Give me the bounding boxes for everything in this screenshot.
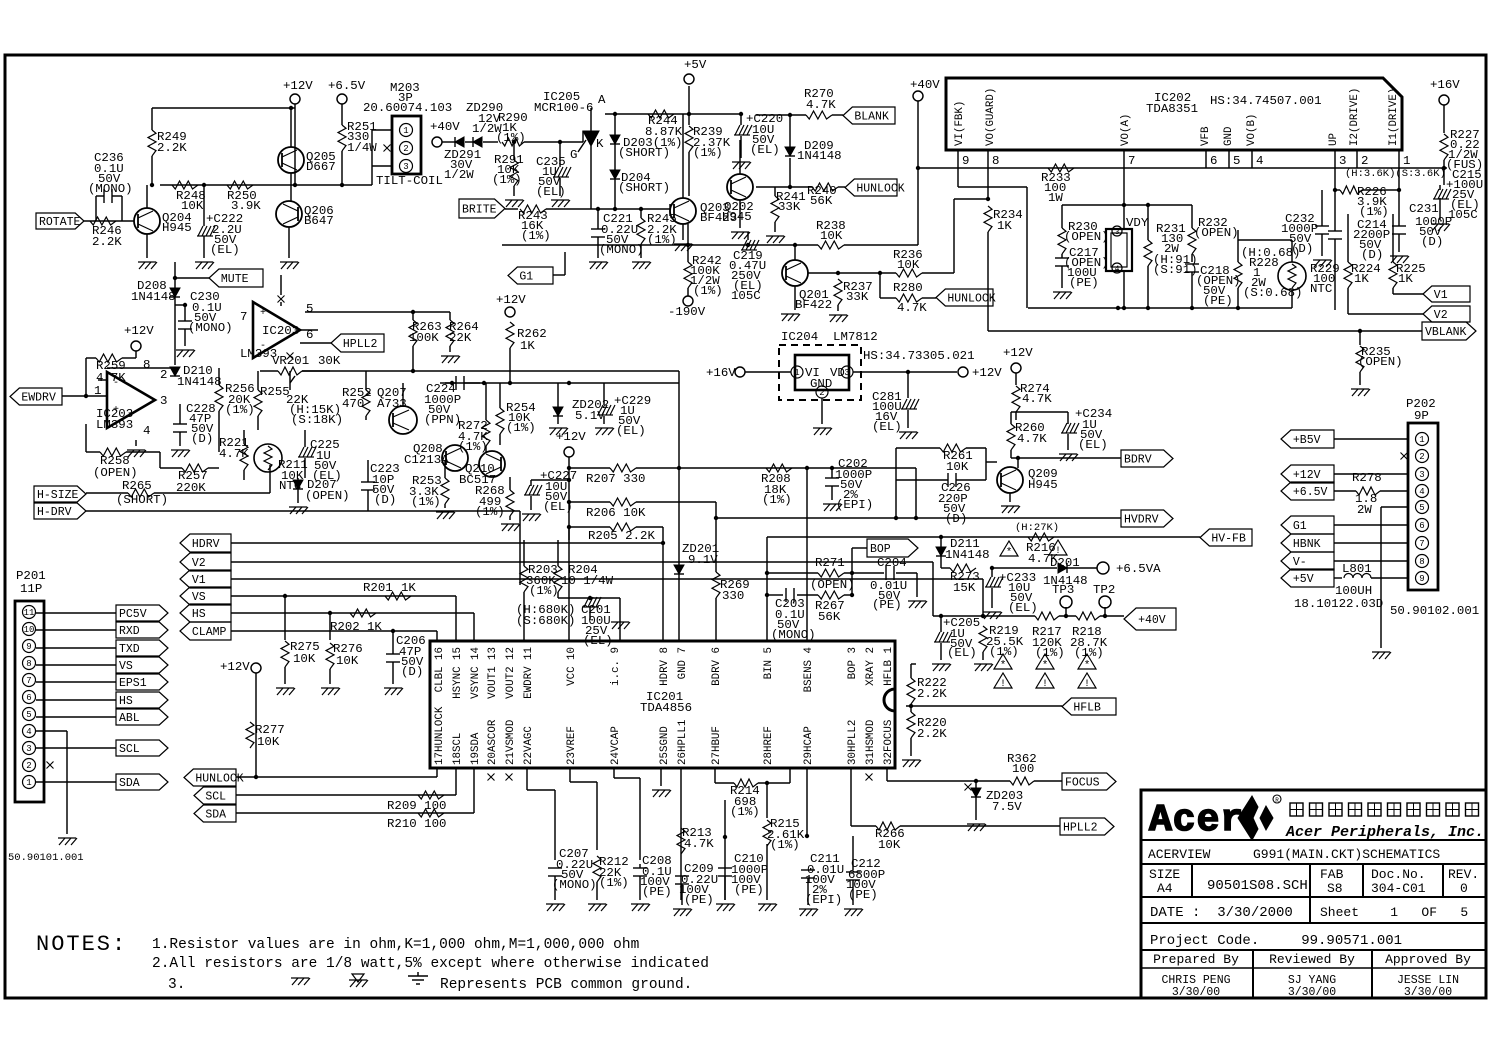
svg-text:I2(DRIVE): I2(DRIVE) [1349, 88, 1361, 146]
svg-text:27HBUF: 27HBUF [711, 726, 723, 765]
svg-text:TDA8351: TDA8351 [1146, 102, 1198, 116]
svg-text:(D): (D) [1421, 235, 1443, 249]
svg-text:HDRV: HDRV [192, 538, 220, 551]
svg-text:18.10122.03D: 18.10122.03D [1294, 597, 1383, 611]
svg-text:H945: H945 [1028, 478, 1058, 492]
svg-text:VO(A): VO(A) [1120, 114, 1132, 146]
svg-text:!: ! [1000, 679, 1006, 690]
svg-text:(1%): (1%) [225, 403, 255, 417]
svg-text:(H:27K): (H:27K) [1015, 522, 1059, 534]
svg-text:+16V: +16V [706, 366, 736, 380]
svg-text:Sheet 1 OF 5: Sheet 1 OF 5 [1320, 905, 1468, 920]
svg-text:105C: 105C [1448, 208, 1478, 222]
svg-text:(1%): (1%) [730, 805, 760, 819]
svg-text:ROTATE: ROTATE [39, 216, 81, 229]
svg-text:2: 2 [1419, 452, 1424, 462]
svg-text:10K: 10K [336, 654, 359, 668]
svg-text:P201: P201 [16, 569, 46, 583]
svg-text:(1%): (1%) [693, 284, 723, 298]
svg-text:UP: UP [1328, 133, 1340, 146]
svg-text:9: 9 [962, 154, 969, 168]
svg-text:4.7K: 4.7K [1022, 392, 1052, 406]
svg-text:1K: 1K [401, 581, 416, 595]
svg-text:G991(MAIN.CKT)SCHEMATICS: G991(MAIN.CKT)SCHEMATICS [1253, 847, 1440, 862]
svg-text:(PE): (PE) [734, 883, 764, 897]
svg-text:1K: 1K [1398, 272, 1413, 286]
svg-text:7: 7 [1419, 539, 1424, 549]
svg-text:(1%): (1%) [599, 876, 629, 890]
svg-text:20.60074.103: 20.60074.103 [363, 101, 452, 115]
svg-text:1/2W: 1/2W [444, 168, 474, 182]
svg-text:2W: 2W [1357, 503, 1372, 517]
svg-text:S8: S8 [1327, 881, 1343, 896]
svg-text:4: 4 [1256, 154, 1263, 168]
svg-text:1/4W: 1/4W [347, 141, 377, 155]
svg-text:19SDA: 19SDA [470, 732, 482, 765]
svg-text:+5V: +5V [684, 58, 707, 72]
svg-text:VO(B): VO(B) [1246, 114, 1258, 146]
svg-text:1K: 1K [520, 339, 535, 353]
svg-text:D667: D667 [306, 160, 336, 174]
svg-text:2: 2 [1361, 154, 1368, 168]
svg-text:10K: 10K [878, 838, 901, 852]
svg-text:6: 6 [1210, 154, 1217, 168]
svg-text:(OPEN): (OPEN) [1064, 230, 1109, 244]
svg-text:(MONO): (MONO) [88, 182, 133, 196]
svg-text:(D): (D) [374, 493, 396, 507]
svg-text:R271: R271 [815, 556, 845, 570]
svg-text:1: 1 [794, 368, 799, 378]
svg-text:31HSMOD: 31HSMOD [865, 720, 877, 765]
svg-text:HVDRV: HVDRV [1124, 514, 1159, 527]
svg-text:7: 7 [1128, 154, 1135, 168]
svg-text:2.2K: 2.2K [157, 141, 187, 155]
svg-text:18SCL: 18SCL [452, 733, 464, 765]
svg-text:1: 1 [1419, 435, 1424, 445]
svg-text:10K: 10K [181, 199, 204, 213]
svg-text:i.c. 9: i.c. 9 [610, 647, 622, 686]
svg-text:SDA: SDA [205, 809, 226, 822]
svg-text:2.2K: 2.2K [92, 235, 122, 249]
svg-text:10 1/4W: 10 1/4W [561, 574, 614, 588]
svg-text:+5V: +5V [1293, 573, 1314, 586]
svg-text:VS: VS [192, 591, 206, 604]
svg-text:SDA: SDA [119, 777, 140, 790]
svg-text:7.5V: 7.5V [992, 800, 1022, 814]
svg-text:6: 6 [1419, 521, 1424, 531]
svg-text:(OPEN): (OPEN) [305, 489, 350, 503]
svg-text:!: ! [1042, 679, 1048, 690]
svg-text:HDRV 8: HDRV 8 [659, 647, 671, 686]
svg-text:1K: 1K [997, 219, 1012, 233]
svg-text:K: K [596, 137, 604, 151]
svg-text:(D): (D) [401, 665, 423, 679]
svg-text:TP3: TP3 [1052, 583, 1074, 597]
svg-text:V1: V1 [1434, 289, 1448, 302]
svg-text:HS: HS [119, 695, 133, 708]
svg-text:56K: 56K [810, 194, 833, 208]
svg-text:4: 4 [26, 727, 31, 737]
svg-text:3: 3 [26, 744, 31, 754]
svg-text:VOUT2 12: VOUT2 12 [505, 647, 517, 699]
svg-text:-190V: -190V [668, 305, 706, 319]
svg-text:3: 3 [1419, 470, 1424, 480]
svg-text:!: ! [1084, 679, 1090, 690]
svg-text:1.Resistor values are in ohm,K: 1.Resistor values are in ohm,K=1,000 ohm… [152, 937, 639, 953]
svg-text:V1: V1 [192, 574, 206, 587]
svg-text:(EL): (EL) [583, 634, 613, 648]
svg-text:LM393: LM393 [96, 418, 133, 432]
svg-text:+: + [260, 308, 266, 319]
svg-text:*: * [1042, 660, 1049, 672]
svg-text:50.90101.001: 50.90101.001 [8, 852, 84, 864]
svg-text:V2: V2 [1434, 309, 1448, 322]
svg-text:(1%): (1%) [770, 838, 800, 852]
svg-text:+12V: +12V [556, 430, 586, 444]
svg-text:R201: R201 [363, 581, 393, 595]
svg-text:105C: 105C [731, 289, 761, 303]
svg-text:(1%): (1%) [762, 493, 792, 507]
svg-text:EWDRV: EWDRV [21, 392, 56, 405]
svg-text:Represents PCB common ground.: Represents PCB common ground. [440, 977, 692, 993]
svg-text:FAB: FAB [1320, 867, 1344, 882]
svg-text:3: 3 [1115, 228, 1120, 237]
svg-text:SCL: SCL [205, 791, 226, 804]
svg-text:0: 0 [1460, 881, 1468, 896]
svg-text:304-C01: 304-C01 [1371, 881, 1426, 896]
svg-text:6: 6 [26, 693, 31, 703]
svg-text:+: + [113, 405, 119, 416]
svg-text:2.2K: 2.2K [917, 687, 947, 701]
svg-text:ABL: ABL [119, 712, 140, 725]
svg-text:10K: 10K [897, 258, 920, 272]
svg-text:3.: 3. [168, 977, 185, 993]
svg-text:33K: 33K [778, 200, 801, 214]
svg-text:(PE): (PE) [642, 885, 672, 899]
svg-text:VDY: VDY [1126, 216, 1149, 230]
svg-text:BSENS 4: BSENS 4 [803, 647, 815, 692]
svg-text:3: 3 [844, 368, 849, 378]
svg-text:8: 8 [1419, 557, 1424, 567]
svg-text:CLBL 16: CLBL 16 [434, 647, 446, 692]
svg-text:(PE): (PE) [1069, 276, 1099, 290]
svg-text:V2: V2 [192, 557, 206, 570]
svg-text:15K: 15K [953, 581, 976, 595]
svg-text:Reviewed By: Reviewed By [1269, 952, 1355, 967]
svg-text:HS:34.73305.021: HS:34.73305.021 [863, 349, 975, 363]
svg-text:VS: VS [119, 660, 133, 673]
svg-text:R278: R278 [1352, 471, 1382, 485]
svg-text:ACERVIEW: ACERVIEW [1148, 847, 1211, 862]
svg-text:(1%): (1%) [1035, 646, 1065, 660]
svg-text:+B5V: +B5V [1293, 434, 1321, 447]
svg-text:R207 330: R207 330 [586, 472, 646, 486]
svg-text:TDA4856: TDA4856 [640, 701, 692, 715]
svg-text:5: 5 [1233, 154, 1240, 168]
svg-text:50.90102.001: 50.90102.001 [1390, 604, 1479, 618]
svg-text:1K: 1K [367, 620, 382, 634]
svg-text:HFLB 1: HFLB 1 [883, 647, 895, 686]
svg-text:(EL): (EL) [750, 143, 780, 157]
svg-text:(PE): (PE) [684, 893, 714, 907]
svg-text:HBNK: HBNK [1293, 538, 1321, 551]
svg-text:(S:680K): (S:680K) [516, 614, 576, 628]
svg-text:(OPEN): (OPEN) [810, 578, 855, 592]
svg-text:HPLL2: HPLL2 [343, 338, 378, 351]
svg-text:*: * [1000, 660, 1007, 672]
svg-text:(EL): (EL) [872, 420, 902, 434]
svg-text:9.1V: 9.1V [688, 553, 718, 567]
svg-text:2.2K: 2.2K [917, 727, 947, 741]
svg-text:1K: 1K [1354, 272, 1369, 286]
svg-text:HPLL2: HPLL2 [1063, 822, 1098, 835]
svg-text:8: 8 [26, 659, 31, 669]
svg-text:HS: HS [192, 608, 206, 621]
svg-text:FOCUS: FOCUS [1065, 777, 1100, 790]
svg-text:B647: B647 [304, 214, 334, 228]
svg-text:10K: 10K [293, 652, 316, 666]
svg-text:(PE): (PE) [872, 598, 902, 612]
svg-text:Approved By: Approved By [1385, 952, 1471, 967]
svg-text:8: 8 [143, 358, 150, 372]
svg-text:24VCAP: 24VCAP [610, 726, 622, 765]
svg-text:9: 9 [1419, 574, 1424, 584]
svg-text:(EPI): (EPI) [805, 893, 842, 907]
svg-text:R202: R202 [330, 620, 360, 634]
svg-text:C231: C231 [1409, 202, 1439, 216]
svg-text:(EL): (EL) [1078, 438, 1108, 452]
svg-text:HV-FB: HV-FB [1211, 533, 1246, 546]
svg-text:5: 5 [1419, 503, 1424, 513]
svg-text:30K: 30K [318, 354, 341, 368]
svg-text:23VREF: 23VREF [566, 726, 578, 765]
svg-text:+12V: +12V [283, 79, 313, 93]
svg-text:22VAGC: 22VAGC [523, 726, 535, 765]
svg-text:(H:3.6K)(S:3.6K): (H:3.6K)(S:3.6K) [1345, 168, 1446, 180]
svg-text:+6.5VA: +6.5VA [1116, 562, 1161, 576]
svg-text:GND: GND [810, 377, 832, 391]
svg-text:EPS1: EPS1 [119, 677, 147, 690]
svg-text:+12V: +12V [1003, 346, 1033, 360]
svg-text:4.7K: 4.7K [1017, 432, 1047, 446]
svg-text:(1%): (1%) [475, 505, 505, 519]
svg-text:R: R [1275, 797, 1279, 804]
svg-text:4.7K: 4.7K [897, 301, 927, 315]
svg-text:+12V: +12V [496, 293, 526, 307]
svg-text:BRITE: BRITE [462, 204, 497, 217]
svg-text:7: 7 [26, 676, 31, 686]
svg-text:R206 10K: R206 10K [586, 506, 646, 520]
svg-text:TP2: TP2 [1093, 583, 1115, 597]
svg-text:BDRV 6: BDRV 6 [711, 647, 723, 686]
svg-text:(MONO): (MONO) [552, 878, 597, 892]
svg-text:R209 100: R209 100 [387, 799, 447, 813]
svg-text:1: 1 [403, 126, 408, 136]
svg-text:A4: A4 [1157, 881, 1173, 896]
svg-text:+12V: +12V [1293, 469, 1321, 482]
svg-text:I1(DRIVE): I1(DRIVE) [1388, 88, 1400, 146]
svg-text:G1: G1 [519, 271, 533, 284]
svg-text:20ASCOR: 20ASCOR [487, 719, 499, 765]
svg-text:(D): (D) [945, 512, 967, 526]
svg-text:VI(FBK): VI(FBK) [954, 101, 966, 146]
svg-text:(1%): (1%) [411, 495, 441, 509]
svg-text:(SHORT): (SHORT) [618, 181, 670, 195]
svg-text:Project Code. 99.90571.001: Project Code. 99.90571.001 [1150, 933, 1402, 949]
svg-text:(PPN): (PPN) [424, 413, 461, 427]
svg-text:32FOCUS: 32FOCUS [883, 720, 895, 765]
svg-text:PC5V: PC5V [119, 608, 147, 621]
svg-text:1W: 1W [1048, 191, 1063, 205]
svg-text:2: 2 [160, 368, 167, 382]
svg-text:VCC 10: VCC 10 [566, 647, 578, 686]
svg-text:30HPLL2: 30HPLL2 [847, 720, 859, 765]
svg-text:(EL): (EL) [536, 185, 566, 199]
svg-text:4: 4 [1419, 487, 1424, 497]
svg-text:C204: C204 [877, 556, 907, 570]
svg-text:GND 7: GND 7 [677, 647, 689, 679]
svg-text:(EL): (EL) [210, 243, 240, 257]
svg-text:4: 4 [1115, 265, 1120, 274]
svg-text:90501S08.SCH: 90501S08.SCH [1207, 878, 1308, 894]
svg-text:1: 1 [1403, 154, 1410, 168]
svg-text:4.7K: 4.7K [806, 98, 836, 112]
svg-text:3: 3 [1339, 154, 1346, 168]
svg-text:56K: 56K [818, 610, 841, 624]
svg-text:+40V: +40V [910, 78, 940, 92]
svg-text:1N4148: 1N4148 [177, 375, 222, 389]
svg-text:10K: 10K [820, 229, 843, 243]
svg-text:(1%): (1%) [989, 645, 1019, 659]
svg-text:9P: 9P [1414, 409, 1429, 423]
svg-text:(OPEN): (OPEN) [93, 466, 138, 480]
svg-text:+12V: +12V [972, 366, 1002, 380]
svg-text:REV.: REV. [1448, 867, 1479, 882]
svg-text:VFB: VFB [1200, 126, 1212, 146]
svg-text:+12V: +12V [124, 324, 154, 338]
svg-text:BF422: BF422 [795, 298, 832, 312]
svg-text:(S:91): (S:91) [1153, 263, 1198, 277]
svg-text:(SHORT): (SHORT) [116, 493, 168, 507]
svg-text:1N4148: 1N4148 [945, 548, 990, 562]
svg-text:BOP 3: BOP 3 [847, 647, 859, 679]
svg-text:4: 4 [143, 424, 150, 438]
svg-text:2.All resistors are 1/8 watt,5: 2.All resistors are 1/8 watt,5% except w… [152, 956, 709, 972]
svg-text:11: 11 [24, 608, 35, 618]
svg-text:4.7K: 4.7K [96, 371, 126, 385]
svg-text:EWDRV 11: EWDRV 11 [523, 647, 535, 699]
svg-text:10: 10 [24, 625, 35, 635]
svg-text:3: 3 [403, 162, 408, 172]
svg-text:+40V: +40V [430, 120, 460, 134]
svg-text:VOUT1 13: VOUT1 13 [487, 647, 499, 699]
svg-text:(OPEN): (OPEN) [1358, 355, 1403, 369]
svg-text:Doc.No.: Doc.No. [1371, 867, 1426, 882]
svg-text:7: 7 [240, 310, 247, 324]
svg-text:R210 100: R210 100 [387, 817, 447, 831]
svg-text:+6.5V: +6.5V [1293, 486, 1328, 499]
svg-text:5: 5 [26, 710, 31, 720]
svg-text:17HUNLOCK: 17HUNLOCK [434, 706, 446, 765]
svg-text:HSYNC 15: HSYNC 15 [452, 647, 464, 699]
svg-text:XRAY 2: XRAY 2 [865, 647, 877, 686]
svg-text:MUTE: MUTE [221, 273, 249, 286]
svg-text:(MONO): (MONO) [188, 321, 233, 335]
svg-text:H-DRV: H-DRV [37, 506, 72, 519]
svg-text:Acer Peripherals, Inc.: Acer Peripherals, Inc. [1285, 824, 1484, 841]
svg-text:21VSMOD: 21VSMOD [505, 720, 517, 765]
svg-text:TILT-COIL: TILT-COIL [376, 174, 443, 188]
svg-text:(D): (D) [1361, 248, 1383, 262]
svg-text:(OPEN): (OPEN) [1194, 226, 1239, 240]
svg-text:+6.5V: +6.5V [328, 79, 366, 93]
svg-text:RXD: RXD [119, 625, 140, 638]
svg-text:29HCAP: 29HCAP [803, 726, 815, 765]
svg-text:(S:0.68): (S:0.68) [1243, 286, 1303, 300]
svg-text:BIN 5: BIN 5 [763, 647, 775, 679]
svg-text:9: 9 [26, 642, 31, 652]
svg-text:11P: 11P [20, 582, 42, 596]
svg-text:H-SIZE: H-SIZE [37, 489, 79, 502]
svg-text:10K: 10K [946, 460, 969, 474]
svg-text:28HREF: 28HREF [763, 726, 775, 765]
svg-text:100: 100 [1012, 762, 1034, 776]
svg-text:CLAMP: CLAMP [192, 626, 227, 639]
svg-text:3/30/00: 3/30/00 [1404, 986, 1452, 999]
svg-text:3: 3 [160, 394, 167, 408]
svg-text:SCL: SCL [119, 743, 140, 756]
svg-text:*: * [1006, 547, 1013, 559]
svg-text:(S:18K): (S:18K) [291, 413, 343, 427]
svg-text:(1%): (1%) [693, 146, 723, 160]
svg-text:1N4148: 1N4148 [797, 149, 842, 163]
svg-text:(1%): (1%) [529, 584, 559, 598]
svg-text:3/30/00: 3/30/00 [1288, 986, 1336, 999]
svg-text:DATE : 3/30/2000: DATE : 3/30/2000 [1150, 905, 1293, 921]
svg-text:TXD: TXD [119, 643, 140, 656]
svg-text:(EL): (EL) [947, 646, 977, 660]
svg-text:1N4148: 1N4148 [131, 290, 176, 304]
svg-text:SIZE: SIZE [1149, 867, 1180, 882]
svg-text:H945: H945 [162, 221, 192, 235]
svg-text:470: 470 [342, 397, 364, 411]
svg-text:10K: 10K [257, 735, 280, 749]
svg-text:Prepared By: Prepared By [1153, 952, 1239, 967]
svg-text:33K: 33K [846, 290, 869, 304]
svg-text:2: 2 [403, 144, 408, 154]
svg-text:(1%): (1%) [1359, 205, 1389, 219]
svg-text:Acer: Acer [1149, 799, 1244, 842]
svg-text:BF423: BF423 [700, 211, 737, 225]
svg-text:VSYNC 14: VSYNC 14 [470, 647, 482, 699]
svg-text:(EL): (EL) [1008, 601, 1038, 615]
svg-text:BOP: BOP [870, 543, 891, 556]
svg-text:HUNLOCK: HUNLOCK [195, 773, 243, 786]
svg-text:(MONO): (MONO) [771, 628, 816, 642]
svg-text:(1%): (1%) [506, 421, 536, 435]
svg-text:(D): (D) [191, 432, 213, 446]
svg-text:26HPLL1: 26HPLL1 [677, 720, 689, 765]
svg-text:A: A [598, 93, 606, 107]
svg-text:R280: R280 [893, 281, 923, 295]
svg-text:L801: L801 [1342, 562, 1372, 576]
svg-text:+16V: +16V [1430, 78, 1460, 92]
svg-text:25SGND: 25SGND [659, 726, 671, 765]
svg-text:3.9K: 3.9K [231, 199, 261, 213]
svg-text:(1%): (1%) [521, 229, 551, 243]
svg-text:NTC: NTC [1310, 282, 1332, 296]
svg-text:IC204 LM7812: IC204 LM7812 [781, 330, 878, 344]
